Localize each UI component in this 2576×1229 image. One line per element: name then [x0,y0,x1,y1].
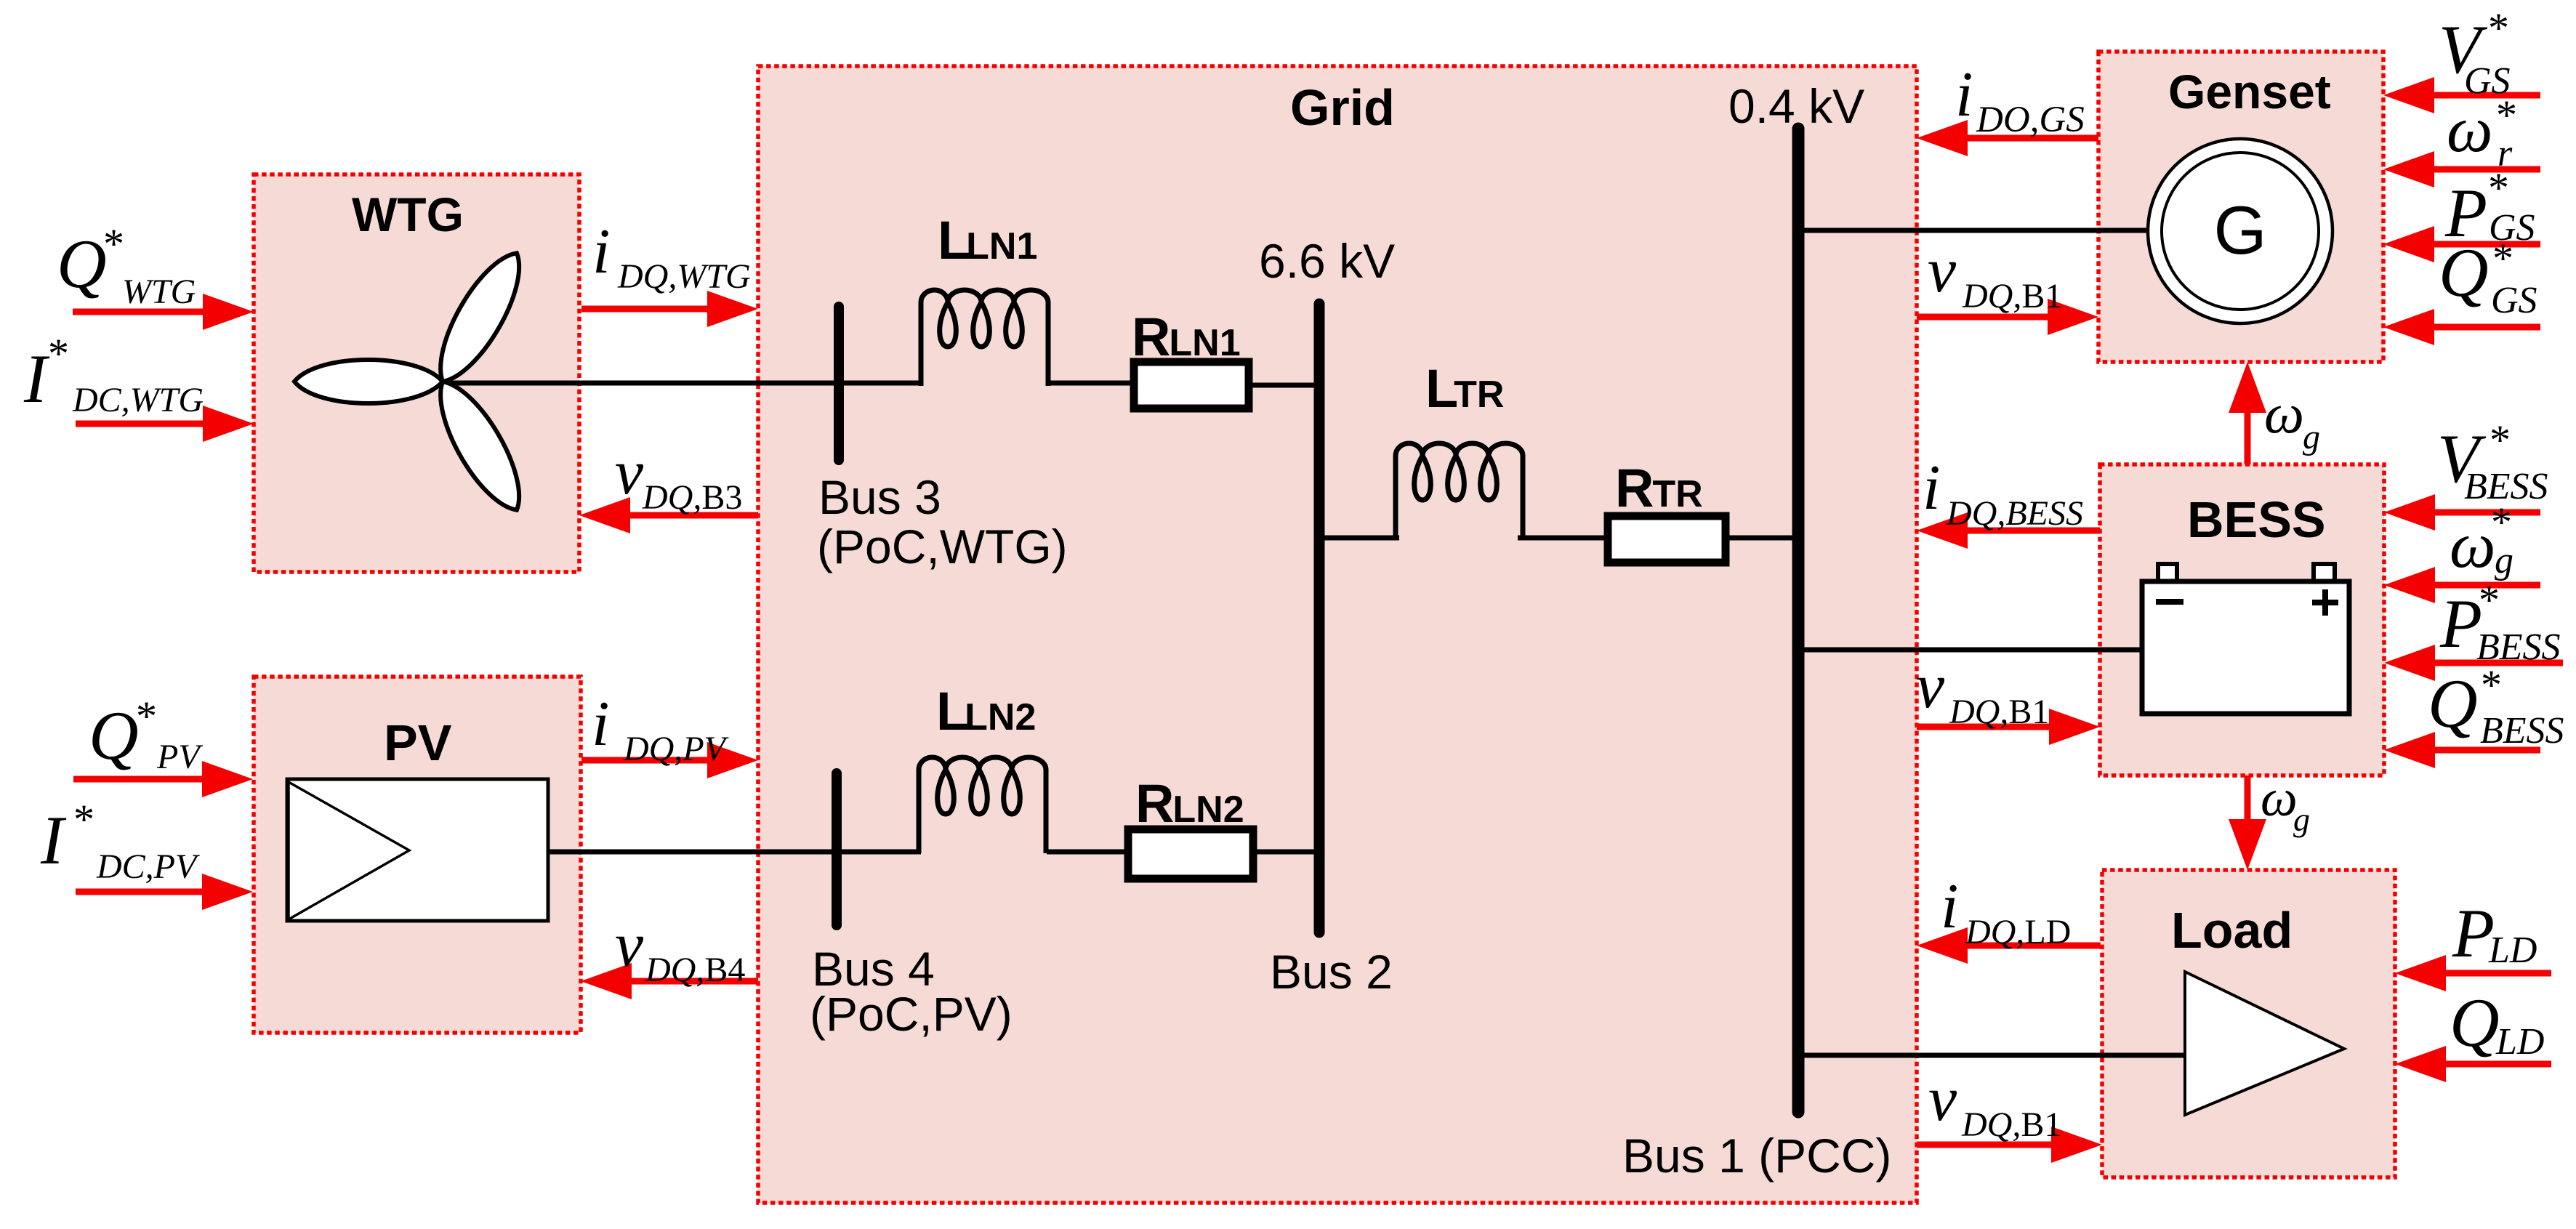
svg-text:R: R [1132,307,1170,367]
svg-text:DO,GS: DO,GS [1976,100,2085,140]
svg-text:LD: LD [2495,1021,2544,1063]
svg-text:Bus 1 (PCC): Bus 1 (PCC) [1622,1129,1891,1182]
svg-text:DQ,PV: DQ,PV [623,730,729,768]
svg-text:I: I [40,802,67,879]
svg-text:ω: ω [2450,509,2496,581]
svg-text:BESS: BESS [2480,710,2564,751]
svg-text:ω: ω [2447,94,2493,166]
svg-text:*: * [2481,661,2502,709]
svg-text:g: g [2495,540,2513,581]
svg-text:DQ,BESS: DQ,BESS [1946,494,2083,533]
svg-text:Q: Q [2439,234,2489,311]
svg-text:*: * [2488,164,2509,211]
svg-text:i: i [592,689,609,759]
svg-text:0.4 kV: 0.4 kV [1728,79,1864,133]
svg-text:PV: PV [156,738,203,776]
svg-text:Load: Load [2171,902,2293,959]
svg-text:G: G [2213,192,2266,268]
svg-text:LN2: LN2 [1172,789,1244,831]
svg-text:R: R [1135,773,1174,834]
svg-text:Grid: Grid [1290,79,1395,136]
svg-text:*: * [73,796,94,843]
svg-text:DQ,B3: DQ,B3 [642,478,742,517]
svg-text:PV: PV [384,714,452,771]
svg-text:i: i [1955,60,1973,130]
svg-text:Bus 2: Bus 2 [1270,945,1393,999]
svg-text:DC,PV: DC,PV [96,847,200,886]
svg-text:DQ,B4: DQ,B4 [645,951,745,989]
svg-text:DQ,B1: DQ,B1 [1961,1105,2061,1144]
svg-text:v: v [615,438,644,508]
svg-text:ω: ω [2264,382,2304,445]
svg-text:ω: ω [2261,769,2298,827]
svg-text:Q: Q [2428,665,2478,742]
svg-text:TR: TR [1454,374,1504,416]
svg-text:DQ,LD: DQ,LD [1965,913,2071,951]
svg-text:*: * [2490,416,2511,464]
svg-text:R: R [1615,458,1654,518]
svg-text:v: v [1928,235,1957,306]
svg-text:DQ,B1: DQ,B1 [1962,277,2062,315]
svg-text:(PoC,PV): (PoC,PV) [810,987,1013,1041]
svg-text:DQ,WTG: DQ,WTG [617,257,751,296]
svg-text:*: * [2492,235,2513,282]
svg-text:BESS: BESS [2187,491,2326,548]
svg-text:*: * [2491,499,2512,546]
svg-text:*: * [2479,576,2500,624]
svg-text:LN1: LN1 [1169,322,1240,364]
svg-text:GS: GS [2491,280,2537,321]
svg-text:LN1: LN1 [966,225,1037,267]
svg-text:WTG: WTG [122,273,196,311]
svg-text:Q: Q [57,225,107,302]
svg-text:Q: Q [89,697,139,774]
svg-text:v: v [1916,651,1945,722]
svg-text:DQ,B1: DQ,B1 [1949,693,2049,731]
svg-text:g: g [2303,418,2320,456]
svg-text:*: * [136,693,157,740]
svg-text:LD: LD [2488,930,2537,971]
svg-text:Bus 3: Bus 3 [818,470,941,524]
svg-text:Genset: Genset [2168,65,2331,118]
svg-text:Q: Q [2450,984,2500,1061]
svg-text:v: v [1928,1064,1957,1135]
svg-text:v: v [615,910,644,980]
svg-text:*: * [48,330,69,377]
svg-text:I: I [23,340,50,417]
svg-text:i: i [592,217,610,287]
svg-text:*: * [2496,92,2517,139]
svg-text:TR: TR [1652,473,1702,515]
svg-text:i: i [1923,453,1940,523]
svg-text:LN2: LN2 [965,696,1036,738]
svg-text:i: i [1941,871,1958,942]
svg-text:6.6 kV: 6.6 kV [1259,234,1395,288]
svg-text:DC,WTG: DC,WTG [72,381,204,419]
svg-text:*: * [103,220,124,267]
svg-text:(PoC,WTG): (PoC,WTG) [817,520,1068,573]
svg-text:g: g [2293,801,2310,838]
svg-text:*: * [2488,4,2509,52]
svg-text:WTG: WTG [352,188,464,241]
